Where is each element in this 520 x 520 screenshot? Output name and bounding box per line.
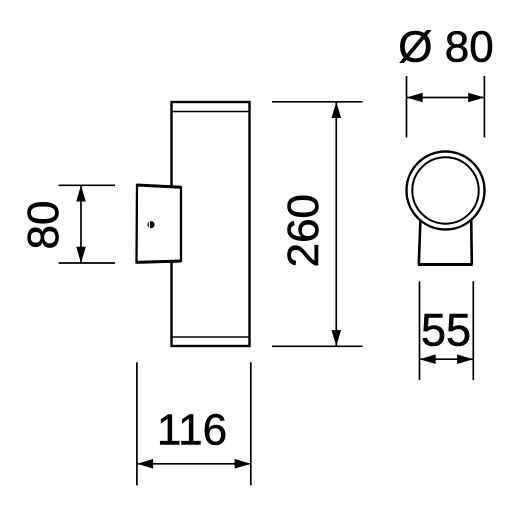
dimension 116 extension line right [250, 362, 252, 485]
dimension 80 arrow up [76, 185, 86, 201]
dimension Ø80 extension line right [483, 76, 485, 137]
dimension 260 arrow down [332, 330, 342, 346]
dimension 80 dimension line [80, 185, 82, 263]
svg-text:116: 116 [157, 406, 227, 455]
svg-text:55: 55 [421, 305, 471, 356]
dimension 260 (body height) extension line top [272, 101, 363, 103]
dimension Ø80 extension line left [406, 76, 408, 137]
dimension 260 extension line bottom [272, 345, 363, 347]
bracket bottom edge (thick) [137, 261, 182, 262]
outer circle (top view) [407, 152, 485, 230]
svg-text:Ø 80: Ø 80 [398, 23, 493, 72]
dimension 55 dimension line [420, 358, 474, 360]
dimension 55 arrow left [420, 354, 436, 364]
dimension 260 arrow up [332, 102, 342, 118]
mount base right side (top view) [470, 219, 473, 264]
svg-text:80: 80 [19, 201, 68, 250]
dimension 260 dimension line [335, 102, 337, 346]
dimension Ø80 arrow left [407, 93, 423, 103]
mount base bottom edge (top view) [418, 263, 473, 266]
dimension 55 arrow right [457, 354, 473, 364]
top cap seam line [172, 111, 250, 113]
dimension 80 arrow down [76, 247, 86, 263]
dimension 116 arrow right [235, 459, 251, 469]
cylinder body (side view) [172, 102, 250, 346]
bracket top edge (thick) [137, 185, 181, 187]
dimension 116 dimension line [137, 463, 251, 465]
wall mounting bracket (side view) [137, 185, 182, 262]
dimension 80 extension line bottom [59, 262, 115, 264]
bracket screw [147, 221, 154, 228]
svg-text:260: 260 [279, 194, 328, 267]
dimension 116 (depth) extension line left [136, 362, 138, 485]
inner circle (top view) [412, 157, 478, 223]
dimension 55 extension line left [419, 281, 421, 380]
dimension 116 arrow left [137, 459, 153, 469]
dimension 55 extension line right [472, 281, 474, 380]
dimension 80 (bracket height) extension line top [59, 184, 115, 186]
bottom cap seam line [172, 336, 250, 338]
mount base left side (top view) [419, 220, 421, 265]
dimension Ø80 dimension line [407, 97, 485, 99]
dimension Ø80 arrow right [468, 93, 484, 103]
